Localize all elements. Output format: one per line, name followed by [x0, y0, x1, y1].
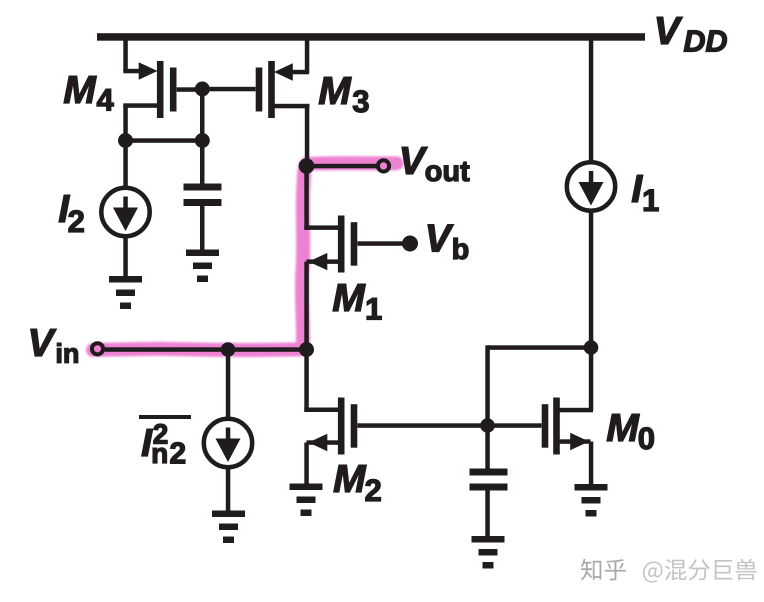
- wire gate junction down: [200, 89, 205, 141]
- M3 source arrow: [274, 63, 293, 80]
- ground M2: [290, 484, 323, 517]
- M3 source wire: [291, 70, 309, 75]
- label M4: [64, 76, 114, 110]
- current source I1: [567, 162, 615, 210]
- transistor M4 (PMOS): [123, 61, 202, 141]
- node M4 drain / I2: [118, 133, 133, 148]
- M2 source arrow: [309, 434, 328, 451]
- wire between nodes: [126, 138, 203, 143]
- wire down to gate node: [485, 345, 490, 425]
- In2 arrow stem: [226, 428, 231, 441]
- I1 circle: [567, 162, 615, 210]
- I1 arrow stem: [589, 171, 594, 184]
- C1 bottom plate: [184, 199, 222, 206]
- ground I2: [109, 276, 142, 309]
- M2 gate wire to M0 gate: [358, 423, 542, 428]
- label Vin: [31, 329, 78, 363]
- M4 gate wire: [177, 87, 203, 92]
- M4 drain vertical wire: [123, 105, 128, 141]
- label Vb: [428, 225, 468, 260]
- label M1: [333, 284, 381, 319]
- M1 source wire: [307, 259, 341, 264]
- wire node to I2: [123, 141, 128, 189]
- wire Vin junction down to M2 drain: [304, 350, 309, 412]
- transistor M3 (PMOS, mirrored): [202, 61, 310, 166]
- terminal Vout open circle: [378, 160, 389, 171]
- M1 channel bar: [338, 216, 345, 273]
- node M2/M0 gate junction: [480, 418, 495, 433]
- wire In2 to ground: [226, 467, 231, 511]
- wire node to gate column: [488, 345, 592, 350]
- M2 source wire: [307, 440, 341, 445]
- I2 arrow head: [113, 208, 138, 232]
- wire I2 to ground: [123, 236, 128, 276]
- wire gate node down to capacitor C2: [485, 426, 490, 469]
- M2 gate bar: [351, 404, 358, 448]
- VDD rail: [97, 33, 645, 41]
- wire C2 to ground: [485, 491, 490, 537]
- M0 drain wire: [557, 408, 594, 413]
- ground C2: [472, 536, 505, 569]
- ground M0: [575, 484, 608, 517]
- wire node to capacitor C1: [200, 141, 205, 184]
- C1 top plate: [184, 184, 222, 191]
- wire VDD to M3 source: [305, 37, 310, 73]
- node I1 / M0 drain: [584, 340, 599, 355]
- overline of In2 label: [139, 415, 191, 419]
- watermark: [581, 559, 757, 583]
- M2 drain wire: [304, 408, 340, 413]
- capacitor C1: [184, 184, 222, 207]
- label VDD: [657, 17, 727, 51]
- node Vb dot: [402, 236, 418, 252]
- M2 channel bar: [338, 398, 345, 455]
- wire VDD to I1: [589, 37, 594, 163]
- I2 circle: [101, 188, 149, 236]
- I2 arrow stem: [123, 197, 128, 210]
- M0 source wire: [557, 439, 591, 444]
- wire In2 tap down: [226, 350, 231, 420]
- M4 source wire: [123, 69, 141, 74]
- label Vout: [402, 147, 469, 181]
- In2 circle: [204, 419, 252, 467]
- In2 arrow head: [216, 439, 241, 463]
- M0 drain vertical wire: [589, 348, 594, 411]
- ground C1: [186, 250, 219, 283]
- C2 bottom plate: [470, 484, 508, 491]
- transistor M2 (NMOS): [304, 398, 541, 455]
- label M2: [334, 465, 381, 501]
- wire M0 source to ground: [589, 442, 594, 485]
- wire VDD to M4 source: [123, 37, 128, 71]
- noise current source In2: [204, 419, 252, 467]
- node gate junction M4/M3: [195, 82, 210, 97]
- M4 channel bar: [157, 61, 164, 118]
- current source I2: [101, 188, 149, 236]
- wire Vin to M1/M2 column: [105, 347, 307, 352]
- C2 top plate: [470, 469, 508, 476]
- M3 drain vertical wire to Vout node: [305, 106, 310, 166]
- capacitor C2: [470, 469, 508, 491]
- node cap C1 top: [195, 133, 210, 148]
- node Vin junction: [299, 342, 314, 357]
- M3 gate wire: [202, 87, 256, 92]
- wire M2 source to ground: [304, 443, 309, 484]
- M0 gate bar: [542, 404, 549, 448]
- M4 source arrow: [139, 62, 158, 79]
- M3 gate bar: [256, 68, 263, 112]
- wire M1 source down to Vin node: [304, 262, 309, 350]
- M4 gate bar: [170, 68, 177, 112]
- M1 source arrow: [309, 253, 328, 270]
- node Vout: [299, 158, 315, 174]
- M1 drain wire: [304, 225, 340, 230]
- label In2 noise: [142, 424, 185, 463]
- label I2: [59, 195, 84, 232]
- wire Vout node to terminal: [307, 164, 378, 169]
- wire C1 to ground: [200, 206, 205, 250]
- I1 arrow head: [579, 182, 604, 206]
- M0 channel bar: [553, 398, 560, 455]
- wire I1 down to node: [589, 210, 594, 350]
- M3 drain wire: [275, 104, 310, 109]
- ground In2: [212, 511, 245, 544]
- M1 gate wire to Vb: [358, 241, 403, 246]
- label M0: [607, 414, 654, 449]
- terminal Vin open circle: [92, 343, 103, 354]
- M1 gate bar: [351, 222, 358, 266]
- node In2 tap: [221, 342, 236, 357]
- transistor M1 (NMOS cascode): [304, 216, 402, 273]
- M3 channel bar: [268, 61, 275, 118]
- M0 source arrow: [570, 433, 589, 450]
- wire Vout node down to M1 drain: [304, 166, 309, 230]
- M4 drain wire: [123, 103, 157, 108]
- transistor M0 (NMOS diode-connected, mirrored): [542, 348, 594, 455]
- label I1: [632, 175, 658, 211]
- label M3: [319, 77, 368, 112]
